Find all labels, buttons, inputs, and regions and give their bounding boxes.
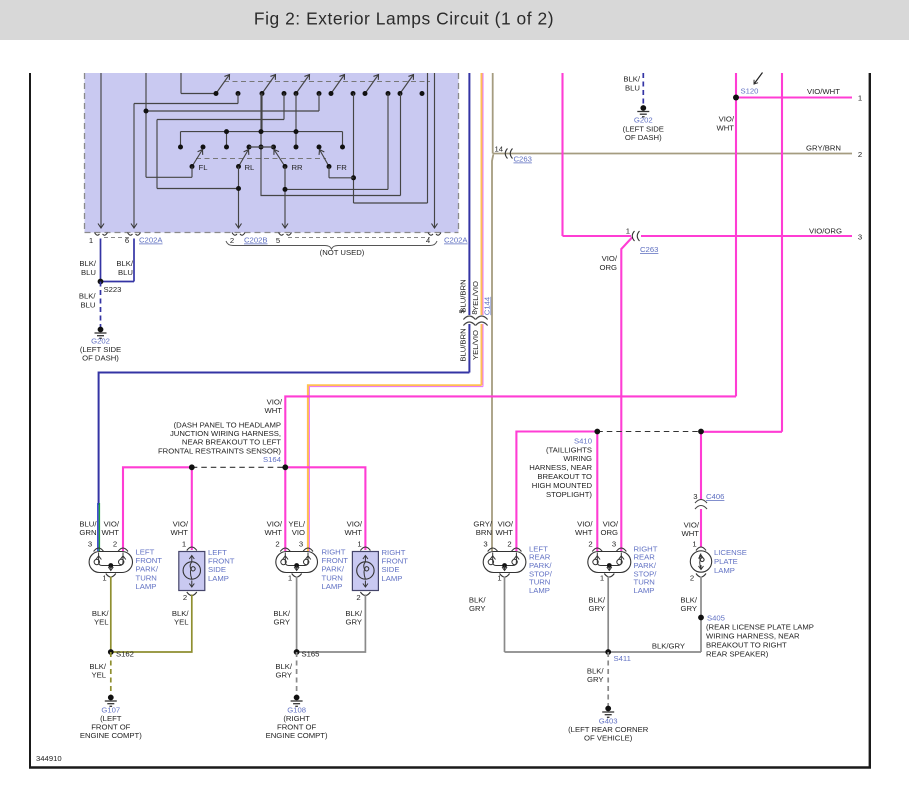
wire: contact 284 branch (283, 94, 285, 120)
svg-text:1: 1 (692, 540, 696, 549)
svg-text:8: 8 (470, 310, 479, 314)
svg-text:BLK/: BLK/ (79, 259, 97, 268)
svg-text:BLK/: BLK/ (345, 609, 363, 618)
svg-text:LAMP: LAMP (634, 586, 655, 595)
svg-text:344910: 344910 (36, 754, 62, 763)
lamp: license plate lamp (690, 547, 747, 577)
svg-text:C202B: C202B (244, 236, 268, 245)
svg-text:BLU: BLU (81, 268, 96, 277)
svg-text:LAMP: LAMP (714, 566, 735, 575)
wire: RL pivot to pin2 (238, 167, 240, 229)
svg-text:S120: S120 (741, 87, 759, 96)
svg-text:LAMP: LAMP (136, 582, 157, 591)
svg-text:WIRING: WIRING (563, 454, 592, 463)
splice S164 net (front VIO/WHT distribution) (123, 467, 365, 551)
svg-text:LICENSE: LICENSE (714, 548, 747, 557)
svg-text:GRY: GRY (469, 604, 486, 613)
svg-text:VIO/: VIO/ (267, 520, 283, 529)
svg-text:2: 2 (858, 150, 862, 159)
svg-text:REAR SPEAKER): REAR SPEAKER) (706, 650, 769, 659)
svg-text:1: 1 (626, 227, 630, 236)
switch RR (274, 150, 285, 167)
(NOT USED) brace (226, 241, 437, 249)
wire: FR pivot drop (328, 167, 330, 178)
svg-text:GRN: GRN (79, 528, 96, 537)
svg-text:ORG: ORG (599, 263, 617, 272)
svg-text:WHT: WHT (716, 124, 734, 133)
svg-text:VIO/WHT: VIO/WHT (807, 87, 840, 96)
connector C263 (GRY/BRN) (505, 149, 512, 159)
svg-text:VIO/: VIO/ (347, 520, 363, 529)
svg-text:BREAKOUT TO RIGHT: BREAKOUT TO RIGHT (706, 641, 787, 650)
svg-text:Fig 2: Exterior Lamps Circuit: Fig 2: Exterior Lamps Circuit (1 of 2) (254, 9, 554, 29)
splice S162 + ground G107 (111, 577, 192, 653)
splice S411 (605, 649, 611, 655)
wire: pin1 feed vertical (100, 73, 102, 228)
wire: contact 353 branch (353, 94, 355, 204)
splice S120 and VIO/WHT feed (285, 73, 852, 467)
lamp: right front side lamp (352, 547, 408, 596)
svg-text:STOPLIGHT): STOPLIGHT) (546, 490, 592, 499)
svg-text:GRY/: GRY/ (473, 520, 493, 529)
wire: GRY/BRN net via C263 pin 14 (492, 73, 852, 551)
lamp: left rear park/stop/turn lamp (483, 544, 553, 595)
svg-text:1: 1 (858, 94, 862, 103)
svg-text:GRY: GRY (588, 604, 605, 613)
svg-text:14: 14 (494, 145, 503, 154)
svg-text:5: 5 (276, 236, 280, 245)
svg-text:ENGINE COMPT): ENGINE COMPT) (266, 731, 328, 740)
svg-text:WHT: WHT (264, 528, 282, 537)
svg-text:S162: S162 (116, 650, 134, 659)
svg-text:LAMP: LAMP (382, 574, 403, 583)
svg-text:C202A: C202A (139, 236, 163, 245)
svg-text:VIO/: VIO/ (267, 398, 283, 407)
splice S410 net (rear VIO/WHT distribution) (516, 432, 701, 552)
svg-text:2: 2 (230, 236, 234, 245)
svg-text:2: 2 (275, 540, 279, 549)
svg-text:WIRING HARNESS, NEAR: WIRING HARNESS, NEAR (706, 632, 800, 641)
wire: contact 262 to bus (261, 94, 263, 132)
lamp: right front park/turn lamp (276, 548, 348, 591)
connector pin collars C202A/C202B (95, 233, 442, 236)
svg-text:1: 1 (89, 236, 93, 245)
svg-text:VIO/: VIO/ (104, 520, 120, 529)
svg-text:S410: S410 (574, 436, 592, 445)
svg-text:BLK/: BLK/ (273, 609, 291, 618)
wire: pin4 vertical (434, 73, 436, 228)
svg-text:C202A: C202A (444, 236, 468, 245)
wire: BLU/BRN from top through C144 (99, 73, 470, 505)
svg-text:2: 2 (690, 574, 694, 583)
svg-text:(NOT USED): (NOT USED) (320, 248, 365, 257)
svg-text:VIO: VIO (292, 528, 305, 537)
svg-text:YEL/VIO: YEL/VIO (471, 281, 480, 311)
wire: BLU/GRN striped drop to left front lamp (97, 503, 99, 551)
svg-text:C263: C263 (514, 155, 532, 164)
svg-text:VIO/: VIO/ (602, 254, 618, 263)
svg-text:6: 6 (125, 236, 129, 245)
wire: FL pivot drop (191, 167, 193, 178)
svg-text:WHT: WHT (681, 529, 699, 538)
connector C263 (VIO/ORG) (632, 231, 639, 241)
svg-text:1: 1 (357, 540, 361, 549)
wire: BLK/BLU dashed to G202 (right) (642, 73, 644, 107)
svg-text:BLK/: BLK/ (587, 667, 605, 676)
node S223 net: BLK/BLU wires from C202A pins 1,6 (101, 239, 135, 282)
wire: VIO/ORG net via C263 pin 1 (563, 73, 853, 551)
svg-text:WHT: WHT (264, 406, 282, 415)
svg-text:5: 5 (458, 309, 467, 313)
switch box internal dashed gang line (middle) (196, 158, 326, 160)
svg-text:1: 1 (182, 540, 186, 549)
svg-text:3: 3 (612, 540, 616, 549)
svg-text:HARNESS, NEAR: HARNESS, NEAR (529, 463, 592, 472)
svg-text:VIO/: VIO/ (498, 520, 514, 529)
splice S165 + ground G108 (297, 577, 366, 653)
svg-text:BRN: BRN (476, 528, 492, 537)
svg-text:BLK/: BLK/ (89, 662, 107, 671)
svg-text:BLU: BLU (118, 268, 133, 277)
svg-text:VIO/: VIO/ (577, 520, 593, 529)
wire: stub top-left (180, 73, 182, 94)
svg-text:RL: RL (245, 163, 256, 172)
switch FR (320, 150, 330, 167)
wire: YEL/VIO from top through C144 (308, 73, 482, 551)
svg-text:4: 4 (426, 236, 431, 245)
svg-text:C144: C144 (483, 296, 492, 315)
svg-text:BLK/: BLK/ (588, 596, 606, 605)
svg-text:OF DASH): OF DASH) (625, 133, 662, 142)
svg-text:BLK/GRY: BLK/GRY (652, 642, 685, 651)
lamp: right rear park/stop/turn lamp (588, 544, 658, 595)
svg-text:2: 2 (356, 593, 360, 602)
svg-text:VIO/ORG: VIO/ORG (809, 227, 842, 236)
svg-text:BLK/: BLK/ (116, 259, 134, 268)
svg-text:3: 3 (693, 492, 697, 501)
svg-text:BLU: BLU (81, 301, 96, 310)
svg-text:VIO/: VIO/ (173, 520, 189, 529)
svg-text:BLK/: BLK/ (680, 596, 698, 605)
svg-text:1: 1 (288, 574, 292, 583)
wire: S411 to G403 dashed (607, 652, 609, 707)
wire: VIO/WHT right drop to rear S410 net (701, 73, 782, 432)
svg-text:S223: S223 (104, 285, 122, 294)
svg-text:3: 3 (483, 540, 487, 549)
svg-text:S165: S165 (302, 650, 320, 659)
wire: contact 319 branch (318, 94, 320, 112)
svg-text:YEL: YEL (174, 618, 189, 627)
svg-text:G202: G202 (634, 116, 653, 125)
wire: contact 388 branch (387, 94, 389, 190)
wire: contact 400 branch (400, 94, 402, 196)
splice S405 (505, 577, 702, 653)
svg-text:LAMP: LAMP (322, 582, 343, 591)
svg-text:GRY: GRY (345, 618, 362, 627)
svg-text:(REAR LICENSE PLATE LAMP: (REAR LICENSE PLATE LAMP (706, 623, 814, 632)
svg-text:WHT: WHT (344, 528, 362, 537)
switch FL (192, 150, 203, 167)
svg-text:3: 3 (88, 540, 92, 549)
svg-text:GRY: GRY (587, 675, 604, 684)
multifunction switch assembly box (85, 73, 459, 233)
svg-text:(TAILLIGHTS: (TAILLIGHTS (546, 445, 592, 454)
ground G202 (left side of dash) (98, 327, 104, 333)
svg-text:1: 1 (102, 574, 106, 583)
svg-text:YEL/: YEL/ (288, 520, 306, 529)
svg-text:2: 2 (113, 540, 117, 549)
svg-text:GRY: GRY (680, 604, 697, 613)
svg-text:BLK/: BLK/ (623, 75, 641, 84)
svg-text:OF DASH): OF DASH) (82, 354, 119, 363)
switch contact row (middle) (178, 145, 183, 150)
svg-text:2: 2 (588, 540, 592, 549)
connector C144 breakaways (463, 316, 487, 326)
svg-text:YEL: YEL (91, 671, 106, 680)
svg-text:ENGINE COMPT): ENGINE COMPT) (80, 731, 142, 740)
svg-text:BLK/: BLK/ (275, 662, 293, 671)
svg-text:BLU/: BLU/ (79, 520, 97, 529)
connector C406 (695, 500, 707, 510)
svg-text:WHT: WHT (170, 528, 188, 537)
svg-text:1: 1 (600, 574, 604, 583)
svg-text:WHT: WHT (101, 528, 119, 537)
switch box internal dashed gang line (top) (224, 81, 430, 83)
wire: left inner vertical to FL (145, 73, 147, 177)
wire: middle bus (181, 131, 343, 133)
svg-text:GRY/BRN: GRY/BRN (806, 144, 841, 153)
svg-text:S164: S164 (263, 455, 282, 464)
svg-text:S411: S411 (614, 654, 631, 663)
svg-text:GRY: GRY (273, 618, 290, 627)
svg-text:VIO/: VIO/ (603, 520, 619, 529)
svg-text:VIO/: VIO/ (719, 115, 735, 124)
svg-text:ORG: ORG (600, 528, 618, 537)
svg-text:VIO/: VIO/ (684, 521, 700, 530)
svg-text:1: 1 (497, 574, 501, 583)
wire: RR pivot to pin5 (284, 167, 286, 229)
svg-text:S405: S405 (707, 614, 725, 623)
wire: S223 to G202 dashed (100, 282, 102, 329)
wire: right inner vertical (427, 73, 429, 203)
splice S223 (98, 279, 104, 285)
lamp: left front side lamp (179, 547, 235, 596)
title bar (0, 0, 909, 40)
svg-text:BLK/: BLK/ (79, 292, 97, 301)
svg-text:WHT: WHT (495, 528, 513, 537)
svg-text:WHT: WHT (575, 528, 593, 537)
svg-text:FR: FR (337, 163, 348, 172)
ground G403 (605, 706, 611, 712)
svg-text:3: 3 (299, 540, 303, 549)
switch RL (239, 150, 249, 167)
svg-text:C263: C263 (640, 245, 658, 254)
svg-text:2: 2 (183, 593, 187, 602)
svg-text:BLK/: BLK/ (92, 609, 110, 618)
svg-text:3: 3 (858, 233, 862, 242)
wire: contact 238 to pin6 (237, 94, 239, 104)
lamp: left front park/turn lamp (89, 548, 162, 591)
svg-text:BLU/BRN: BLU/BRN (459, 328, 468, 361)
svg-text:YEL/VIO: YEL/VIO (471, 330, 480, 360)
svg-text:LAMP: LAMP (529, 586, 550, 595)
annotation arrow at S120 (754, 73, 763, 85)
svg-text:PLATE: PLATE (714, 557, 738, 566)
svg-text:BLU/BRN: BLU/BRN (459, 279, 468, 312)
svg-text:OF VEHICLE): OF VEHICLE) (584, 734, 633, 743)
svg-text:BREAKOUT TO: BREAKOUT TO (537, 472, 592, 481)
svg-text:RR: RR (292, 163, 304, 172)
top row switch contacts (216, 75, 230, 94)
svg-text:LAMP: LAMP (208, 574, 229, 583)
svg-text:BLK/: BLK/ (469, 596, 487, 605)
svg-text:BLK/: BLK/ (172, 609, 190, 618)
svg-text:2: 2 (507, 540, 511, 549)
svg-text:HIGH MOUNTED: HIGH MOUNTED (532, 481, 593, 490)
svg-text:GRY: GRY (275, 671, 292, 680)
ground G202 (left side of dash, upper) (640, 105, 646, 111)
svg-text:BLU: BLU (625, 84, 640, 93)
wire: contact 296 to bus (295, 94, 297, 132)
svg-text:C406: C406 (706, 492, 724, 501)
svg-text:FL: FL (199, 163, 209, 172)
svg-text:YEL: YEL (94, 618, 109, 627)
